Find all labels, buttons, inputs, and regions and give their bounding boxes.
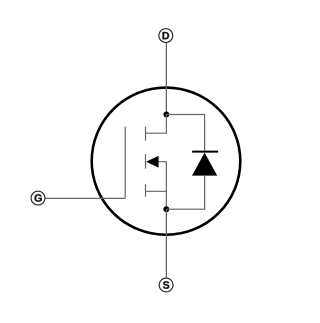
wire drain node to diode cathode [166, 115, 204, 152]
wire drain lead to channel [146, 115, 167, 134]
gate electrode line [124, 127, 126, 199]
body channel bar [145, 154, 147, 169]
terminal S label [163, 281, 169, 289]
diode D1 cathode bar [192, 151, 218, 153]
wire body arrow to source [159, 162, 167, 210]
diode D1 triangle [192, 153, 217, 176]
wire source node to S [165, 209, 167, 278]
terminal G circle [31, 191, 45, 205]
node source junction dot [163, 206, 169, 212]
terminal D label [163, 32, 170, 39]
source channel bar [145, 184, 147, 197]
wire D to drain node [165, 43, 167, 115]
terminal S circle [159, 278, 173, 292]
wire source lead [146, 190, 167, 192]
terminal D circle [159, 29, 173, 43]
node drain junction dot [163, 112, 169, 118]
terminal G label [35, 194, 42, 202]
transistor body circle Q1 [92, 88, 241, 235]
wire G to gate [45, 197, 125, 199]
wire source node to diode anode [166, 176, 204, 209]
body arrow [146, 156, 159, 168]
drain channel bar [145, 127, 147, 141]
